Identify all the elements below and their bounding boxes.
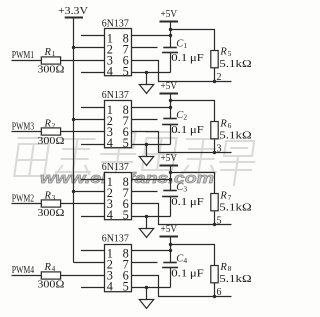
svg-text:5: 5	[123, 208, 129, 222]
svg-text:3: 3	[183, 185, 187, 194]
svg-text:5.1kΩ: 5.1kΩ	[219, 59, 251, 70]
svg-text:4: 4	[107, 64, 113, 78]
svg-text:4: 4	[107, 280, 113, 294]
svg-text:4: 4	[52, 264, 56, 273]
svg-text:PWM2: PWM2	[12, 194, 34, 205]
svg-text:300Ω: 300Ω	[37, 208, 64, 219]
svg-text:0.1 μF: 0.1 μF	[171, 125, 204, 136]
svg-text:R: R	[44, 47, 52, 58]
svg-text:PWM1: PWM1	[12, 50, 34, 61]
svg-text:6N137: 6N137	[102, 18, 129, 29]
svg-text:2: 2	[183, 113, 187, 122]
svg-text:0.1 μF: 0.1 μF	[171, 268, 204, 279]
svg-text:4: 4	[107, 208, 113, 222]
svg-text:+5V: +5V	[161, 81, 178, 92]
svg-text:PWM3: PWM3	[12, 122, 34, 133]
svg-text:6N137: 6N137	[102, 90, 129, 101]
svg-text:3: 3	[217, 144, 222, 155]
svg-text:+5V: +5V	[161, 224, 178, 235]
svg-text:R: R	[219, 47, 227, 58]
svg-text:8: 8	[228, 264, 232, 273]
svg-text:3: 3	[52, 193, 56, 202]
svg-text:7: 7	[228, 193, 232, 202]
svg-text:5.1kΩ: 5.1kΩ	[219, 274, 251, 285]
svg-text:0.1 μF: 0.1 μF	[171, 53, 204, 64]
svg-text:6N137: 6N137	[102, 233, 129, 244]
svg-text:R: R	[44, 262, 52, 273]
svg-text:6: 6	[217, 287, 222, 298]
svg-text:5: 5	[228, 49, 232, 58]
svg-text:2: 2	[52, 121, 56, 130]
svg-text:R: R	[44, 119, 52, 130]
svg-text:5: 5	[123, 280, 129, 294]
svg-text:6: 6	[228, 121, 232, 130]
svg-text:5.1kΩ: 5.1kΩ	[219, 131, 251, 142]
svg-text:4: 4	[183, 256, 187, 265]
svg-text:300Ω: 300Ω	[37, 65, 64, 76]
svg-text:R: R	[219, 190, 227, 201]
svg-text:1: 1	[52, 49, 56, 58]
svg-text:6N137: 6N137	[102, 162, 129, 173]
svg-text:+3.3V: +3.3V	[58, 6, 89, 17]
svg-text:0.1 μF: 0.1 μF	[171, 197, 204, 208]
svg-text:5: 5	[123, 136, 129, 150]
svg-text:R: R	[44, 191, 52, 202]
svg-text:4: 4	[107, 136, 113, 150]
svg-text:+5V: +5V	[161, 9, 178, 20]
svg-text:R: R	[219, 118, 227, 129]
svg-text:300Ω: 300Ω	[37, 136, 64, 147]
svg-text:5.1kΩ: 5.1kΩ	[219, 203, 251, 214]
svg-text:300Ω: 300Ω	[37, 280, 64, 291]
svg-text:5: 5	[123, 64, 129, 78]
svg-text:2: 2	[217, 72, 222, 83]
svg-text:PWM4: PWM4	[12, 265, 34, 276]
svg-text:5: 5	[217, 216, 222, 227]
svg-text:R: R	[219, 262, 227, 273]
svg-text:1: 1	[183, 41, 187, 50]
svg-text:+5V: +5V	[161, 153, 178, 164]
